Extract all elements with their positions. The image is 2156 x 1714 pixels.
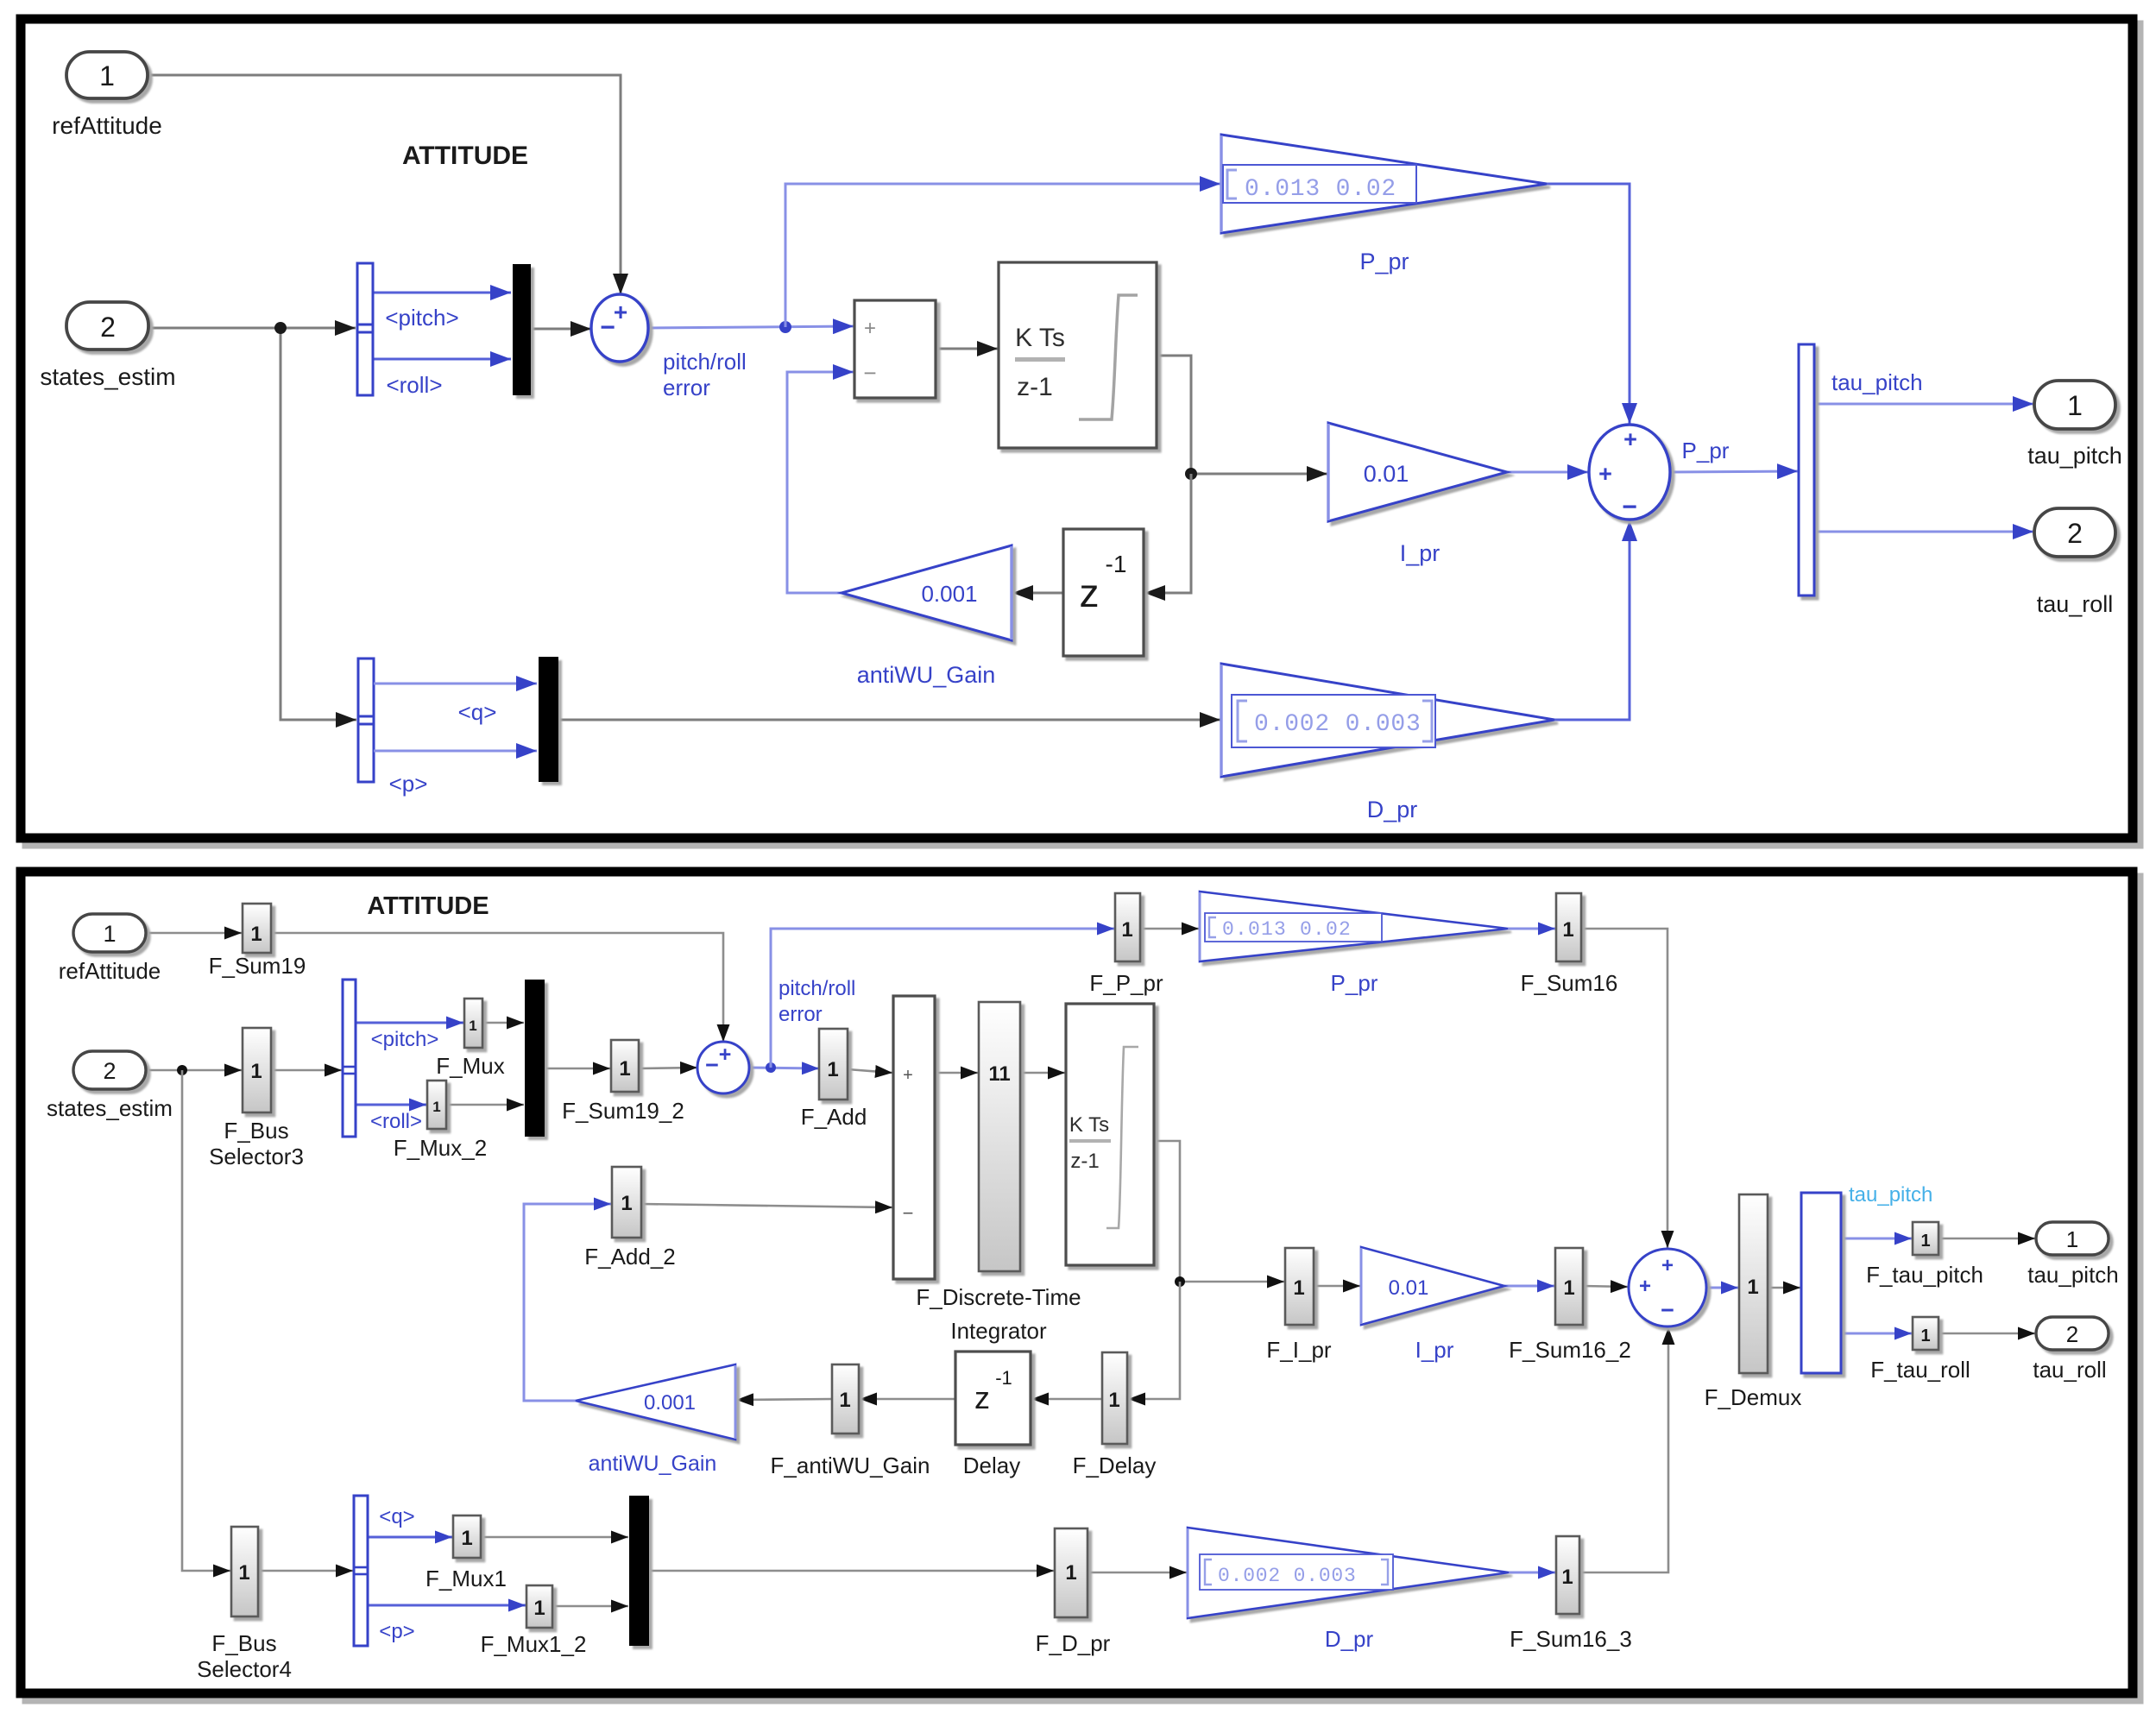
svg-text:F_I_pr: F_I_pr — [1266, 1337, 1331, 1363]
svg-text:1: 1 — [1108, 1389, 1119, 1412]
svg-text:0.001: 0.001 — [644, 1391, 696, 1415]
svg-text:1: 1 — [103, 921, 116, 947]
svg-text:K Ts: K Ts — [1069, 1113, 1109, 1137]
svg-text:1: 1 — [619, 1057, 630, 1081]
svg-text:−: − — [1622, 493, 1637, 521]
svg-text:Delay: Delay — [963, 1452, 1020, 1478]
svg-text:states_estim: states_estim — [47, 1095, 173, 1121]
svg-text:1: 1 — [533, 1597, 545, 1620]
svg-text:+: + — [903, 1066, 913, 1085]
svg-text:0.013 0.02: 0.013 0.02 — [1245, 176, 1396, 203]
svg-text:1: 1 — [1920, 1232, 1930, 1251]
svg-text:1: 1 — [1562, 918, 1573, 942]
svg-text:2: 2 — [103, 1058, 116, 1084]
svg-text:states_estim: states_estim — [40, 363, 175, 390]
svg-text:pitch/roll: pitch/roll — [663, 349, 747, 375]
svg-text:D_pr: D_pr — [1367, 797, 1418, 822]
svg-text:+: + — [1661, 1254, 1674, 1277]
svg-text:Selector4: Selector4 — [197, 1656, 292, 1682]
svg-text:1: 1 — [1563, 1276, 1574, 1300]
svg-text:pitch/roll: pitch/roll — [779, 977, 855, 1000]
svg-text:F_Demux: F_Demux — [1705, 1384, 1802, 1410]
svg-text:1: 1 — [1293, 1276, 1304, 1300]
svg-text:1: 1 — [1920, 1326, 1930, 1345]
svg-text:0.01: 0.01 — [1364, 461, 1409, 487]
svg-text:F_Discrete-Time: F_Discrete-Time — [916, 1284, 1081, 1310]
svg-text:F_Sum16: F_Sum16 — [1521, 970, 1618, 996]
svg-text:Integrator: Integrator — [950, 1318, 1047, 1344]
svg-text:refAttitude: refAttitude — [59, 958, 161, 984]
svg-text:<roll>: <roll> — [386, 372, 442, 398]
svg-text:0.001: 0.001 — [921, 581, 977, 607]
svg-text:F_P_pr: F_P_pr — [1089, 970, 1163, 996]
svg-text:+: + — [719, 1043, 732, 1067]
svg-text:F_antiWU_Gain: F_antiWU_Gain — [771, 1452, 930, 1478]
svg-text:<roll>: <roll> — [370, 1110, 422, 1133]
svg-text:−: − — [600, 313, 615, 342]
svg-text:F_Mux1_2: F_Mux1_2 — [481, 1631, 587, 1657]
svg-text:1: 1 — [2066, 1226, 2078, 1252]
svg-text:1: 1 — [2067, 390, 2083, 421]
svg-text:<pitch>: <pitch> — [385, 305, 458, 331]
svg-text:1: 1 — [1121, 918, 1132, 942]
svg-text:+: + — [1639, 1275, 1651, 1298]
svg-text:F_D_pr: F_D_pr — [1036, 1630, 1111, 1656]
svg-text:I_pr: I_pr — [1415, 1337, 1454, 1363]
svg-text:ATTITUDE: ATTITUDE — [367, 892, 489, 920]
svg-text:K Ts: K Ts — [1015, 324, 1065, 352]
svg-text:2: 2 — [2066, 1321, 2078, 1347]
svg-text:<p>: <p> — [379, 1620, 414, 1643]
svg-text:F_Mux1: F_Mux1 — [426, 1566, 507, 1591]
svg-text:z-1: z-1 — [1070, 1150, 1099, 1173]
svg-text:1: 1 — [1561, 1566, 1573, 1589]
svg-text:+: + — [1598, 461, 1612, 487]
svg-text:F_tau_roll: F_tau_roll — [1870, 1357, 1970, 1383]
svg-text:0.002 0.003: 0.002 0.003 — [1254, 711, 1422, 738]
svg-text:<pitch>: <pitch> — [371, 1028, 439, 1051]
svg-text:-1: -1 — [995, 1367, 1012, 1389]
svg-text:antiWU_Gain: antiWU_Gain — [857, 662, 996, 688]
svg-text:0.013 0.02: 0.013 0.02 — [1222, 918, 1352, 941]
svg-text:2: 2 — [2067, 518, 2083, 549]
svg-text:1: 1 — [469, 1018, 476, 1034]
svg-text:−: − — [705, 1052, 719, 1078]
svg-text:z: z — [974, 1380, 990, 1415]
svg-text:1: 1 — [621, 1192, 632, 1215]
svg-text:error: error — [779, 1003, 823, 1026]
svg-text:<p>: <p> — [389, 771, 428, 797]
svg-text:−: − — [863, 360, 876, 386]
svg-text:F_Bus: F_Bus — [224, 1118, 288, 1144]
svg-text:1: 1 — [250, 923, 262, 946]
svg-text:1: 1 — [99, 60, 115, 91]
svg-text:1: 1 — [839, 1389, 850, 1412]
svg-text:tau_pitch: tau_pitch — [2027, 443, 2122, 469]
svg-text:+: + — [614, 299, 627, 325]
svg-text:antiWU_Gain: antiWU_Gain — [589, 1452, 717, 1476]
svg-text:tau_pitch: tau_pitch — [1831, 369, 1923, 395]
svg-text:I_pr: I_pr — [1400, 540, 1440, 566]
svg-text:ATTITUDE: ATTITUDE — [402, 142, 528, 170]
svg-text:1: 1 — [238, 1561, 249, 1585]
svg-text:0.01: 0.01 — [1389, 1276, 1429, 1300]
svg-text:F_Sum16_2: F_Sum16_2 — [1509, 1337, 1631, 1363]
svg-text:1: 1 — [1065, 1561, 1076, 1585]
svg-text:F_Delay: F_Delay — [1073, 1452, 1157, 1478]
svg-text:<q>: <q> — [458, 699, 497, 725]
svg-text:-1: -1 — [1106, 551, 1127, 577]
svg-text:F_Sum19: F_Sum19 — [209, 953, 306, 979]
svg-text:F_Sum19_2: F_Sum19_2 — [562, 1098, 684, 1124]
svg-text:refAttitude: refAttitude — [52, 112, 162, 139]
svg-text:F_Mux_2: F_Mux_2 — [394, 1135, 487, 1161]
svg-text:F_tau_pitch: F_tau_pitch — [1866, 1262, 1983, 1288]
svg-text:1: 1 — [432, 1099, 440, 1115]
svg-text:1: 1 — [827, 1058, 838, 1081]
svg-text:P_pr: P_pr — [1331, 970, 1378, 996]
svg-text:tau_pitch: tau_pitch — [1849, 1183, 1932, 1207]
svg-text:11: 11 — [988, 1062, 1010, 1086]
svg-text:−: − — [903, 1202, 914, 1224]
svg-text:+: + — [864, 317, 876, 340]
svg-text:tau_roll: tau_roll — [2033, 1357, 2106, 1383]
svg-text:F_Mux: F_Mux — [436, 1053, 504, 1079]
svg-text:+: + — [1623, 426, 1637, 452]
svg-text:F_Bus: F_Bus — [211, 1630, 276, 1656]
svg-text:<q>: <q> — [379, 1505, 414, 1528]
svg-text:D_pr: D_pr — [1325, 1626, 1374, 1652]
svg-text:0.002 0.003: 0.002 0.003 — [1218, 1565, 1357, 1587]
svg-text:1: 1 — [461, 1527, 472, 1550]
svg-text:z-1: z-1 — [1017, 373, 1053, 401]
svg-text:z: z — [1080, 570, 1100, 615]
svg-text:F_Add_2: F_Add_2 — [584, 1244, 676, 1270]
svg-text:2: 2 — [100, 312, 116, 343]
svg-text:F_Sum16_3: F_Sum16_3 — [1510, 1626, 1632, 1652]
svg-text:tau_roll: tau_roll — [2037, 591, 2114, 617]
svg-text:error: error — [663, 375, 710, 400]
svg-text:tau_pitch: tau_pitch — [2027, 1262, 2119, 1288]
svg-text:P_pr: P_pr — [1682, 438, 1730, 463]
svg-text:Selector3: Selector3 — [209, 1144, 304, 1169]
svg-text:F_Add: F_Add — [801, 1104, 867, 1130]
svg-text:P_pr: P_pr — [1359, 249, 1409, 274]
svg-text:1: 1 — [250, 1060, 262, 1083]
svg-text:1: 1 — [1747, 1276, 1758, 1299]
svg-text:−: − — [1661, 1297, 1674, 1323]
